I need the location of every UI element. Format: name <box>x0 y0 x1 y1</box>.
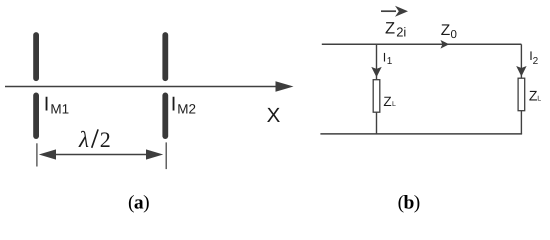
svg-text:Z: Z <box>385 20 395 38</box>
svg-text:I: I <box>383 51 386 65</box>
svg-text:M1: M1 <box>50 101 69 116</box>
svg-text:2: 2 <box>533 56 539 67</box>
svg-text:0: 0 <box>451 29 457 41</box>
svg-text:(a): (a) <box>128 192 149 213</box>
svg-text:X: X <box>267 104 281 127</box>
svg-text:Z: Z <box>383 94 391 109</box>
svg-text:2: 2 <box>100 127 111 152</box>
svg-text:L: L <box>392 101 396 108</box>
svg-text:2i: 2i <box>396 25 406 40</box>
svg-text:I: I <box>171 94 177 116</box>
svg-text:(b): (b) <box>398 192 420 213</box>
svg-text:M2: M2 <box>177 101 196 116</box>
svg-text:I: I <box>44 94 50 116</box>
svg-text:Z: Z <box>441 22 450 39</box>
svg-text:λ: λ <box>78 127 89 152</box>
svg-text:1: 1 <box>387 56 393 67</box>
svg-text:L: L <box>537 95 541 102</box>
